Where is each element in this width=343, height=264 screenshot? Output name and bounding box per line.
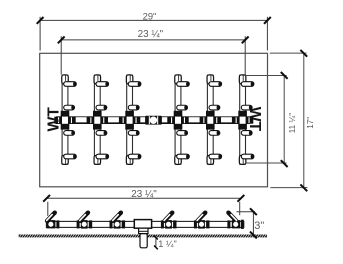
side fitting 3: [110, 211, 126, 229]
riser jet pipe 4: [175, 75, 190, 164]
side fitting 6 (end, mirrored): [227, 211, 244, 229]
cross fitting 4: [167, 111, 188, 130]
svg-text:23 ¼": 23 ¼": [138, 29, 164, 40]
dimension 11 1/4 inch right: [245, 75, 286, 163]
inlet drop pipe: [140, 234, 147, 248]
gas inlet coupling (circle fitting): [145, 116, 162, 125]
cross fitting 3: [119, 111, 140, 130]
manifold pipe: [56, 116, 250, 124]
svg-text:11 ¼": 11 ¼": [288, 113, 297, 134]
side fitting 2: [77, 211, 93, 229]
riser jet pipe 5: [207, 75, 222, 164]
riser jet pipe 6: [239, 75, 254, 164]
dimension 3 inch: [237, 212, 255, 236]
cross fitting 5: [200, 111, 221, 130]
side fitting 4: [161, 211, 177, 229]
svg-text:29": 29": [143, 10, 157, 21]
cross fitting 2: [87, 111, 108, 130]
dimension 17 inch right: [270, 53, 308, 188]
dimension 29 inch: [40, 17, 267, 51]
svg-text:17": 17": [306, 117, 315, 129]
riser jet pipe 2: [94, 75, 109, 164]
riser jet pipe 1: [62, 75, 77, 164]
dimension 23 1/4 inch top: [61, 36, 245, 76]
cross fitting 1: [54, 111, 75, 130]
svg-text:23 ¼": 23 ¼": [131, 189, 157, 200]
side view burner pipe: [46, 221, 243, 227]
svg-text:WT: WT: [45, 107, 62, 132]
side fitting 5: [194, 211, 210, 229]
side fitting 1 (end): [46, 211, 59, 229]
svg-text:WT: WT: [246, 107, 263, 132]
burner pan rectangle: [40, 53, 268, 187]
dimension 1 1/4 inch: [155, 237, 157, 247]
riser jet pipe 3: [126, 75, 141, 164]
dimension 23 1/4 inch bottom: [47, 198, 241, 216]
cross fitting 6: [232, 111, 253, 130]
svg-text:1 ¼": 1 ¼": [158, 239, 177, 249]
ground line: [19, 234, 267, 237]
inlet tee side view: [134, 220, 151, 234]
svg-text:3": 3": [254, 220, 264, 232]
